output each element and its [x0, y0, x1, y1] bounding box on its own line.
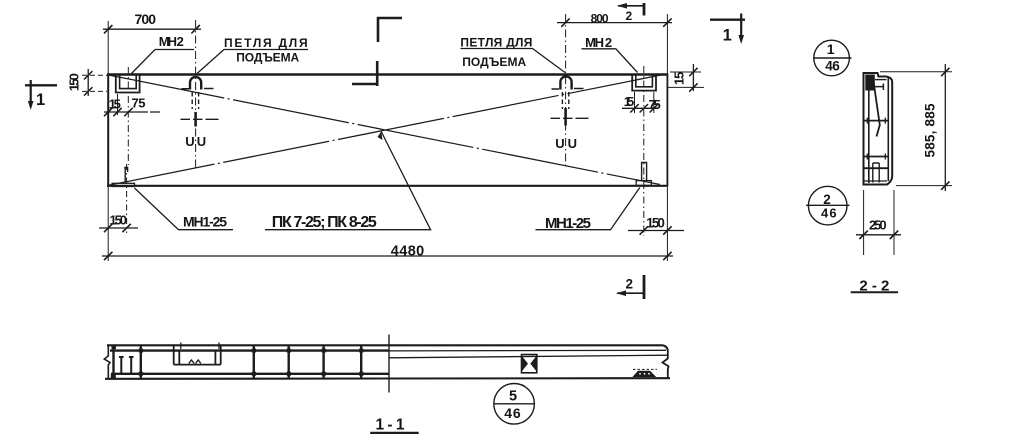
svg-text:46: 46: [825, 59, 840, 74]
1-1 bowtie right fill: [530, 356, 537, 372]
section 2-2 tie line low2: [864, 167, 889, 169]
panel outline left edge: [107, 74, 109, 187]
svg-text:150: 150: [646, 216, 665, 231]
anchor MH1 bottom-left pin centerline: [126, 164, 128, 233]
plate MH2 top-right inner U: [636, 75, 653, 87]
section 2-2 tie mid ticks: [867, 118, 885, 124]
centerline of left plate: [127, 67, 129, 165]
1-1 notch bottom: [174, 364, 221, 366]
svg-text:МН1-25: МН1-25: [545, 215, 591, 232]
dim 4480 line: [102, 255, 673, 257]
1-1 right end with break: [663, 350, 669, 378]
section 2-2 inner left wall: [868, 75, 870, 183]
leader loop label right: [461, 49, 566, 73]
1-1 notch hooks: [189, 360, 201, 364]
svg-text:46: 46: [821, 206, 837, 221]
section 2-2 top tie: [875, 79, 887, 81]
section marker 2 bottom vertical: [643, 275, 646, 299]
section 2-2 dim ticks: [941, 68, 949, 190]
1-1 stirrup 6: [360, 346, 362, 378]
dim 800 right extension: [666, 14, 668, 74]
svg-text:585, 885: 585, 885: [923, 103, 938, 157]
circle 1/46: [814, 40, 850, 76]
1-1 bowtie left fill: [522, 356, 529, 372]
dim 15 vertical right line: [692, 64, 694, 91]
svg-text:МН1-25: МН1-25: [183, 214, 227, 230]
anchor MH1 bottom-left hook: [124, 168, 127, 182]
section 2-2 bottom inner line: [864, 180, 887, 182]
svg-text:U: U: [555, 136, 564, 151]
svg-text:ПОДЪЕМА: ПОДЪЕМА: [462, 55, 526, 69]
svg-text:4480: 4480: [391, 243, 425, 259]
svg-text:75: 75: [649, 97, 661, 112]
section 2-2 anchor channel: [873, 163, 879, 183]
dim 15/75 left extension: [117, 94, 119, 115]
right loop crosshair bar: [564, 108, 567, 126]
1-1 stirrup 5: [322, 346, 324, 378]
section 2-2 tie low1 ticks: [867, 154, 885, 160]
1-1 stirrup 4: [288, 346, 290, 378]
svg-text:1: 1: [36, 91, 45, 109]
1-1 cut line: [388, 335, 390, 393]
plate MH2 top-left outer U: [116, 75, 140, 93]
svg-text:150: 150: [66, 73, 81, 91]
dim 15/75 left ticks: [104, 108, 133, 116]
1-1 stirrup 3: [253, 346, 255, 378]
section 2-2 tie line mid: [864, 120, 889, 122]
svg-text:800: 800: [591, 11, 609, 25]
section 2-2 diagonal bar: [873, 77, 880, 137]
1-1 outline top: [107, 345, 668, 350]
section 2-2 inner right wall: [887, 78, 889, 181]
arrowhead PK leader: [378, 132, 383, 141]
right loop crosshair: [551, 117, 589, 119]
1-1 inner top line left thick: [110, 349, 389, 351]
dim 150 vertical left line: [87, 69, 89, 96]
svg-text:U: U: [568, 136, 577, 151]
circle 2/46 divider: [806, 204, 850, 206]
1-1 outline bottom: [105, 377, 670, 380]
svg-text:МН 2: МН 2: [585, 35, 612, 50]
section 2-2 plate T mark: [875, 84, 884, 91]
section 2-2 dim line vertical: [944, 64, 946, 191]
dim 15 vertical right ticks: [689, 68, 697, 92]
section marker 1 left arrowhead: [28, 101, 34, 110]
diagonal D2 bottom-left to top-right: [109, 75, 663, 186]
leader loop label left: [197, 50, 309, 75]
circle 5/46 divider: [494, 403, 534, 405]
right loop side dashes: [552, 88, 584, 91]
leader MH2 right: [582, 49, 638, 73]
left loop crosshair bar: [194, 112, 197, 127]
leader MH2 left: [131, 50, 194, 75]
dim 800 tick right: [663, 18, 671, 26]
section 2-2 top extension: [880, 71, 952, 73]
plate MH2 top-right outer U: [632, 75, 656, 91]
svg-text:2 - 2: 2 - 2: [859, 277, 889, 294]
1-1 notch right verticals: [215, 346, 220, 365]
svg-text:U: U: [197, 134, 206, 149]
break mark lower bracket: [352, 61, 378, 86]
left lifting loop arch: [190, 77, 201, 90]
dim 700 left extension: [107, 21, 109, 74]
break mark upper bracket: [377, 17, 402, 42]
section 2-2 plate blob: [865, 75, 875, 91]
right loop hidden legs: [562, 92, 568, 109]
dim 150 bottom-right ticks: [640, 226, 672, 234]
dim 4480 left extension: [107, 187, 109, 261]
dim 250 ticks: [859, 231, 898, 239]
section 2-2 outline: [864, 73, 893, 185]
1-1 wedge dashed top: [633, 368, 657, 370]
panel outline right edge: [666, 74, 668, 187]
svg-text:75: 75: [132, 96, 146, 111]
dim 250 extensions: [864, 190, 894, 255]
anchor MH1 bottom-right hook: [642, 163, 647, 181]
dim 700 line: [103, 28, 201, 30]
leader MH1-25 left: [135, 188, 234, 230]
1-1 junction blobs bottom: [111, 372, 364, 379]
dim 250 line: [856, 234, 901, 236]
svg-text:5: 5: [509, 388, 517, 404]
section marker 1 right arrowhead: [738, 35, 744, 44]
panel outline top edge: [107, 73, 668, 76]
section marker 2 top vertical: [643, 3, 646, 16]
right lifting loop axis centerline: [565, 14, 567, 166]
1-1 third line right: [389, 355, 668, 358]
svg-text:1: 1: [827, 41, 835, 57]
1-1 T pin 1: [119, 357, 124, 373]
1-1 junction blobs top: [112, 345, 364, 353]
svg-text:15: 15: [671, 72, 686, 86]
dim 800 line: [557, 22, 672, 24]
left loop crosshair: [181, 118, 219, 120]
dim 15 vertical right extensions: [668, 72, 705, 87]
right lifting loop arch: [560, 76, 571, 89]
dim 150 bottom-left ticks: [104, 224, 131, 232]
svg-text:1 - 1: 1 - 1: [376, 416, 405, 433]
dim 15/75 left line: [104, 111, 160, 113]
1-1 notch left verticals: [174, 346, 180, 365]
circle 5/46: [494, 384, 535, 425]
svg-text:2: 2: [626, 277, 634, 292]
svg-text:ПЕТЛЯ ДЛЯ: ПЕТЛЯ ДЛЯ: [460, 36, 532, 50]
section 2-2 tie line low1: [864, 156, 889, 158]
svg-text:МН 2: МН 2: [159, 34, 184, 49]
svg-text:ПК 7-25; ПК 8-25: ПК 7-25; ПК 8-25: [272, 214, 377, 231]
plate MH2 top-left inner U: [120, 75, 137, 89]
1-1 bowtie plate: [522, 355, 537, 373]
circle 2/46: [808, 186, 847, 225]
left loop side dashes: [182, 88, 214, 90]
dim 4480 tick right: [663, 252, 671, 260]
section marker 1 left horizontal: [25, 84, 57, 86]
circle 1/46 divider: [813, 57, 852, 59]
svg-text:15: 15: [624, 94, 635, 109]
section 2-2 bottom extension: [896, 185, 952, 187]
section marker 2 bottom arrowhead: [616, 290, 626, 296]
dim 150 bottom-left line: [99, 227, 138, 229]
svg-text:700: 700: [135, 11, 157, 27]
dim 150 bottom-right line: [628, 230, 684, 232]
svg-text:250: 250: [869, 218, 887, 233]
left lifting loop axis centerline: [195, 20, 197, 168]
anchor MH1 bottom-left plate: [112, 183, 135, 186]
section marker 1 right vertical: [740, 14, 742, 39]
label 1-1 underline: [370, 432, 419, 434]
section marker 1 right horizontal: [710, 19, 745, 21]
dim 4480 tick left: [104, 252, 112, 260]
dim 15/75 right line: [622, 107, 658, 109]
dim 15/75 right extensions: [635, 92, 654, 113]
svg-text:ПОДЪЕМА: ПОДЪЕМА: [236, 51, 299, 65]
section marker 2 bottom arrow line: [617, 292, 645, 294]
dim 800 tick left: [561, 18, 569, 26]
dim 4480 right extension: [666, 187, 668, 261]
leader PK label: [265, 132, 431, 230]
1-1 T pin 2: [129, 357, 134, 373]
section marker 2 top arrow line: [618, 5, 645, 7]
dim 150 vertical left dashes: [82, 75, 107, 91]
svg-text:150: 150: [109, 212, 127, 227]
dim 15/75 right ticks: [630, 104, 658, 112]
svg-text:46: 46: [504, 405, 521, 421]
svg-text:1: 1: [723, 27, 732, 45]
label 2-2 underline: [851, 291, 898, 293]
panel outline bottom edge: [107, 185, 668, 187]
1-1 left end with break: [104, 345, 110, 379]
section marker 2 top arrowhead: [617, 3, 627, 9]
dim 150 vertical left ticks: [84, 71, 92, 96]
1-1 stirrup 1: [112, 346, 114, 378]
leader MH1-25 right: [536, 188, 640, 230]
dim 700 tick left: [104, 25, 112, 33]
1-1 notch top ticks: [181, 343, 219, 350]
diagonal D1 top-left to bottom-right: [109, 75, 661, 185]
dim 700 tick right: [191, 25, 199, 33]
svg-text:U: U: [185, 134, 194, 149]
anchor MH1 bottom-right plate: [636, 181, 651, 186]
left loop hidden legs: [192, 92, 198, 109]
centerline through right plate and right anchor: [643, 66, 645, 236]
1-1 inner top line right: [389, 349, 666, 352]
1-1 wedge detail: [632, 371, 656, 377]
1-1 inner bottom line left thick: [111, 373, 389, 375]
svg-text:15: 15: [109, 97, 121, 112]
1-1 stirrup 2: [140, 346, 142, 378]
svg-text:2: 2: [625, 9, 632, 23]
section marker 1 left vertical: [30, 80, 32, 104]
svg-text:ПЕТЛЯ ДЛЯ: ПЕТЛЯ ДЛЯ: [224, 36, 308, 50]
